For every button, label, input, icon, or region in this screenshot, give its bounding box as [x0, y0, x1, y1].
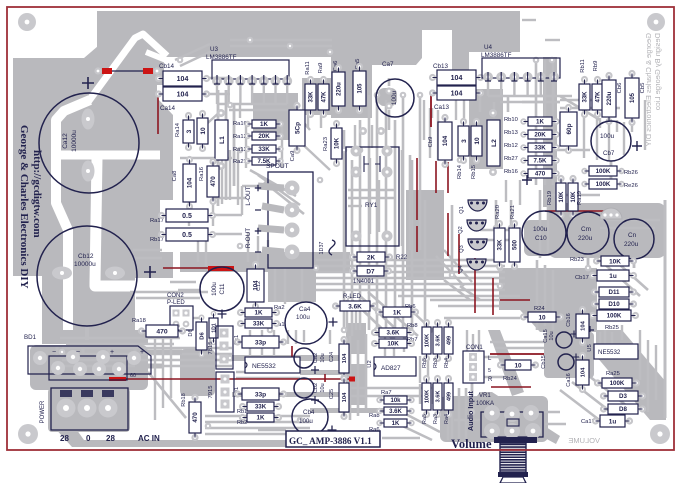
capacitor 104 box lower — [579, 352, 586, 359]
wire right mid verticals — [583, 111, 585, 158]
capacitor Cb7 — [591, 121, 631, 161]
wire diag bottom right — [390, 420, 432, 440]
via pads scattered — [247, 37, 254, 44]
red trace horizontal bottom-left — [163, 267, 210, 269]
wire big cap leads — [85, 326, 89, 340]
wire U3 region extras — [245, 124, 247, 168]
svg-text:Ra11: Ra11 — [305, 61, 311, 74]
transistor footprint TO-92 gray — [600, 208, 622, 219]
svg-text:1K: 1K — [260, 121, 268, 128]
svg-text:100u: 100u — [600, 133, 615, 140]
svg-text:P-LED: P-LED — [167, 300, 185, 306]
svg-text:Ca14: Ca14 — [160, 105, 176, 112]
svg-text:0: 0 — [86, 434, 91, 443]
copper pour bars near AD827 — [346, 323, 366, 354]
svg-text:5: 5 — [488, 368, 491, 374]
svg-text:47K: 47K — [596, 91, 602, 103]
svg-text:3.6K: 3.6K — [436, 335, 442, 347]
svg-text:Rb19: Rb19 — [547, 191, 553, 205]
wire bottom extras — [236, 371, 346, 373]
svg-text:33K: 33K — [583, 91, 589, 103]
speaker output pads — [285, 181, 300, 196]
svg-text:1u: 1u — [609, 273, 617, 280]
capacitor Cp8 — [565, 104, 572, 111]
svg-text:Rb12: Rb12 — [504, 143, 518, 149]
copper pour mid blob below output header — [268, 268, 316, 302]
svg-text:VR1: VR1 — [479, 393, 491, 399]
wire relay interior — [348, 189, 396, 191]
title box GC_AMP-3886 — [286, 431, 380, 447]
wire x432 to Cb9 — [431, 108, 433, 118]
svg-text:10: 10 — [538, 314, 546, 321]
capacitor Ca13 104 box — [429, 89, 436, 96]
svg-text:104: 104 — [342, 392, 348, 402]
svg-text:28: 28 — [60, 434, 69, 443]
svg-text:2K: 2K — [367, 254, 376, 261]
svg-text:L2: L2 — [491, 139, 498, 147]
svg-text:R22: R22 — [396, 255, 408, 261]
plus mark Cb12 — [144, 266, 156, 278]
wire bundle mid-right horizontals — [316, 259, 505, 262]
svg-text:100K: 100K — [425, 334, 431, 347]
wire bundle bottom-left horizontals — [62, 347, 232, 350]
op-amp U1 NE5532 — [245, 357, 300, 373]
svg-text:Cb9: Cb9 — [428, 137, 434, 148]
svg-text:1K: 1K — [257, 415, 265, 422]
wire top right corner stubs — [522, 19, 536, 21]
capacitor Cn — [614, 219, 654, 259]
svg-text:D8: D8 — [619, 406, 627, 413]
pour clearance white channel top-left — [88, 34, 167, 102]
capacitor Cb14 104 box — [155, 75, 162, 82]
power connector pads — [57, 399, 76, 418]
svg-text:George & Charles Electronics D: George & Charles Electronics DIY — [18, 125, 30, 289]
svg-text:BD1: BD1 — [24, 334, 37, 341]
svg-text:Ra20: Ra20 — [495, 205, 501, 219]
wire relay area — [354, 125, 356, 148]
svg-text:Cb12: Cb12 — [78, 253, 94, 260]
bridge rectifier BD1 outline — [28, 346, 151, 374]
svg-text:http://gcdigtw.com: http://gcdigtw.com — [31, 150, 43, 238]
svg-text:Rb18: Rb18 — [181, 393, 187, 406]
svg-text:10u: 10u — [549, 331, 555, 340]
svg-text:10: 10 — [474, 137, 481, 145]
svg-text:20K: 20K — [534, 132, 546, 139]
inductor L1 — [215, 120, 228, 160]
svg-text:33K: 33K — [255, 404, 267, 411]
wire Cb7 vertical — [599, 118, 601, 128]
volume pot shaft — [494, 437, 537, 443]
svg-text:R-LED: R-LED — [343, 294, 362, 300]
svg-text:10K: 10K — [387, 341, 399, 348]
svg-text:104: 104 — [451, 91, 463, 98]
svg-text:3: 3 — [186, 129, 193, 133]
wire U3 pin fanout — [216, 81, 218, 104]
wire U4 pin fanout — [487, 77, 489, 96]
op-amp U4 outline — [482, 58, 560, 78]
svg-text:10: 10 — [200, 127, 207, 135]
copper pour volume pot blob — [440, 396, 548, 442]
svg-text:Rb24: Rb24 — [503, 376, 518, 382]
svg-text:Ca9: Ca9 — [290, 151, 296, 162]
svg-text:C25: C25 — [329, 389, 335, 399]
svg-text:C12: C12 — [256, 281, 262, 291]
svg-text:George & Charles Electronics D: George & Charles Electronics DIY — [644, 33, 653, 146]
svg-text:3.6K: 3.6K — [348, 303, 362, 310]
wire U3 column extras — [221, 150, 223, 204]
wire x537-553 verticals bottom — [536, 260, 539, 330]
svg-text:104: 104 — [177, 76, 189, 83]
svg-text:C11: C11 — [219, 283, 226, 294]
regulator 7815 — [216, 326, 233, 369]
copper pour 7815 area blob — [180, 349, 215, 396]
svg-text:100u: 100u — [299, 418, 313, 425]
resistor Rb4 — [445, 319, 452, 326]
svg-text:Ra16: Ra16 — [199, 167, 205, 181]
svg-text:Volume: Volume — [451, 437, 492, 451]
svg-text:U4: U4 — [484, 44, 493, 51]
capacitor Cm — [567, 212, 609, 254]
copper pour block B top right — [452, 30, 520, 52]
wire bundle bottom-center horizontals — [205, 415, 310, 418]
capacitor C12 — [252, 261, 259, 268]
copper pour horizontal bands center-bottom — [232, 355, 346, 361]
svg-text:Ra5: Ra5 — [422, 414, 428, 424]
speaker output fat traces — [258, 186, 284, 188]
svg-text:28: 28 — [106, 434, 115, 443]
capacitor Ca14 104 box — [155, 90, 162, 97]
svg-text:3.6K: 3.6K — [389, 409, 402, 415]
svg-text:470: 470 — [535, 171, 546, 178]
svg-text:Q3: Q3 — [459, 245, 465, 252]
svg-text:Ra25: Ra25 — [606, 371, 620, 377]
svg-text:AC IN: AC IN — [138, 434, 160, 443]
svg-text:47K: 47K — [322, 91, 328, 103]
wire right area horizontals — [560, 99, 600, 101]
wire U3 to output bundle — [217, 90, 220, 206]
wire bottom mid verticals — [384, 330, 386, 356]
capacitor C11 — [200, 267, 244, 311]
diode D11 — [591, 288, 598, 295]
capacitor Cb4 — [292, 399, 328, 435]
wire BL region extras — [197, 236, 199, 262]
resistor Rb5 — [423, 319, 430, 326]
wire under U4 bundle — [479, 96, 482, 112]
red trace horizontal near volume — [491, 386, 531, 388]
capacitor Ca12 electrolytic — [39, 93, 139, 193]
svg-text:CON2: CON2 — [167, 293, 184, 299]
svg-text:1K: 1K — [536, 119, 544, 126]
copper pour main top-left mass — [13, 11, 331, 332]
svg-text:Ra7: Ra7 — [381, 390, 392, 396]
svg-text:Audio Input: Audio Input — [466, 390, 475, 431]
resistor Ra19 — [569, 175, 576, 182]
svg-text:C24: C24 — [329, 352, 335, 362]
copper pour behind Cm Cn caps — [548, 203, 666, 258]
capacitor Cb2 — [294, 378, 314, 398]
wire Ca7 leads — [388, 110, 391, 130]
svg-text:100K: 100K — [607, 313, 622, 320]
pour clearance white pocket 0.5 resistors — [160, 200, 174, 252]
inductor L2 — [487, 120, 500, 166]
svg-text:SPOUT: SPOUT — [266, 163, 289, 170]
capacitor Ca1 33p box — [234, 338, 241, 345]
bridge rectifier pads upper — [33, 351, 47, 365]
resistor Rb14 — [460, 118, 467, 125]
capacitor Cb12 electrolytic — [37, 226, 137, 326]
svg-text:U2: U2 — [367, 360, 373, 367]
mounting hole bottom-right — [650, 424, 670, 444]
resistor Ra5 — [423, 375, 430, 382]
svg-text:10K: 10K — [334, 137, 341, 149]
svg-text:L1: L1 — [219, 136, 226, 144]
copper pour Ca7 interior blob — [378, 88, 397, 106]
wire misc right caps — [610, 161, 613, 185]
red trace verticals center channel — [416, 158, 418, 220]
svg-text:100u: 100u — [296, 314, 310, 321]
wire diag right caps to holes — [600, 260, 640, 296]
wire CON1 feeds — [466, 330, 468, 351]
capacitor Cb13 104 box — [429, 74, 436, 81]
svg-text:Ra9: Ra9 — [318, 63, 324, 74]
svg-text:Rb16: Rb16 — [504, 169, 518, 175]
svg-text:Q1: Q1 — [459, 206, 465, 213]
wire bottom-left vertical bundle — [154, 336, 156, 420]
mounting hole top-right — [647, 13, 665, 31]
capacitor Ca2 — [294, 348, 314, 368]
svg-text:Cb4: Cb4 — [303, 409, 315, 416]
svg-text:10: 10 — [514, 362, 522, 369]
wire right edge vertical — [664, 200, 667, 418]
svg-text:NE5532: NE5532 — [598, 349, 621, 356]
red trace CON1 L line — [490, 353, 544, 355]
svg-text:33K: 33K — [253, 321, 265, 328]
pour clearance white channel to Cb14 — [146, 52, 176, 64]
svg-text:10000u: 10000u — [71, 130, 78, 152]
wire verticals mid-bottom — [249, 330, 251, 356]
svg-text:1D37: 1D37 — [319, 242, 325, 255]
svg-text:C10: C10 — [535, 235, 547, 242]
transistor Q4 — [467, 259, 486, 270]
wire bridge leads — [56, 346, 59, 356]
svg-text:Rb2: Rb2 — [237, 420, 247, 426]
diode D5 squiggle — [329, 240, 335, 255]
svg-text:D11: D11 — [608, 289, 620, 296]
svg-text:U5: U5 — [587, 344, 593, 351]
svg-text:Cn: Cn — [628, 232, 637, 239]
power connector outline — [51, 388, 128, 430]
copper pour power connector blob — [48, 388, 130, 432]
svg-text:100K: 100K — [596, 181, 611, 188]
svg-text:Rb8: Rb8 — [407, 323, 418, 329]
wire left bottom connects — [162, 325, 180, 327]
svg-text:Cb6: Cb6 — [617, 83, 623, 94]
wire bundle center channel verticals — [343, 130, 346, 330]
svg-text:Cb16: Cb16 — [566, 313, 572, 326]
svg-text:100u: 100u — [533, 226, 548, 233]
svg-text:Rb10: Rb10 — [504, 117, 518, 123]
svg-text:Rb3: Rb3 — [433, 358, 439, 368]
svg-text:3.6K: 3.6K — [386, 330, 400, 337]
svg-text:20K: 20K — [258, 133, 270, 140]
diode D8 — [600, 405, 607, 412]
wire audio input verticals — [458, 388, 461, 440]
svg-text:D6: D6 — [188, 329, 194, 336]
svg-text:33K: 33K — [534, 145, 546, 152]
svg-text:Ca13: Ca13 — [434, 104, 450, 111]
svg-text:10K: 10K — [609, 258, 621, 265]
svg-text:CON1: CON1 — [466, 345, 483, 351]
svg-text:0.5: 0.5 — [182, 213, 192, 220]
copper pour strip below block B — [452, 52, 469, 90]
svg-text:Ra4: Ra4 — [444, 414, 450, 424]
diode D3 — [600, 392, 607, 399]
capacitor Cb5 — [628, 70, 635, 77]
svg-text:33K: 33K — [498, 239, 504, 251]
svg-text:220u: 220u — [578, 235, 593, 242]
copper pour patch behind 33K 47K — [302, 78, 335, 115]
svg-text:D3: D3 — [619, 393, 627, 400]
copper pour block right of strip — [469, 89, 503, 169]
svg-text:Q2: Q2 — [458, 226, 464, 233]
svg-text:1N4001: 1N4001 — [353, 279, 375, 285]
svg-text:D6: D6 — [200, 332, 206, 340]
red trace horizontal near Rb23 — [545, 210, 609, 212]
wire BR bundle horizontals — [430, 299, 505, 302]
capacitor Cp5 — [293, 102, 300, 109]
wire center-right extras — [429, 108, 431, 158]
svg-text:Cb15: Cb15 — [541, 355, 547, 368]
svg-text:Cb2: Cb2 — [313, 383, 319, 393]
relay pads — [351, 146, 362, 157]
mounting hole top-left — [18, 13, 36, 31]
transistor Q1 — [468, 200, 487, 211]
svg-text:Ca12: Ca12 — [62, 133, 69, 149]
svg-text:Ra23: Ra23 — [323, 137, 329, 151]
capacitor C25 104 box — [340, 375, 347, 382]
resistor Re26 — [581, 181, 587, 187]
potentiometer outline — [481, 412, 543, 437]
red trace near Cb2 — [324, 374, 326, 382]
svg-text:Ca4: Ca4 — [299, 306, 311, 313]
svg-text:60p: 60p — [566, 123, 573, 134]
svg-text:Rb26: Rb26 — [624, 170, 638, 176]
svg-text:499: 499 — [447, 392, 453, 401]
svg-text:Rb9: Rb9 — [593, 61, 599, 72]
speaker output header outline — [268, 172, 313, 268]
wire right side drops from Cb5 Cb6 — [608, 120, 610, 160]
svg-text:~: ~ — [76, 349, 80, 356]
svg-text:Rb4: Rb4 — [444, 358, 450, 368]
svg-text:33K: 33K — [258, 146, 270, 153]
copper pour right of relay — [406, 190, 444, 280]
relay RY1 outline — [346, 147, 399, 246]
red trace top-left with pads — [94, 67, 101, 74]
svg-text:10000u: 10000u — [74, 261, 96, 268]
svg-text:+: + — [110, 349, 114, 356]
svg-text:RY1: RY1 — [365, 202, 378, 209]
svg-text:Cb14: Cb14 — [159, 63, 175, 70]
svg-text:0.5: 0.5 — [182, 232, 192, 239]
svg-text:470: 470 — [156, 328, 168, 335]
capacitor Ca4 — [285, 302, 327, 344]
resistor Rb25 — [589, 312, 596, 319]
resistor Rb24 — [497, 361, 504, 368]
wire volume area stubs — [447, 412, 449, 440]
svg-text:Ra8: Ra8 — [369, 413, 380, 419]
red trace verticals near Q transistors — [447, 162, 449, 193]
svg-text:7915: 7915 — [208, 386, 214, 399]
copper pour band below output area — [180, 252, 350, 272]
svg-text:Design By George Lico: Design By George Lico — [653, 33, 662, 110]
resistor Ra15 — [199, 110, 206, 117]
wire center column bottom verticals — [349, 336, 352, 420]
svg-text:104: 104 — [451, 75, 463, 82]
capacitor Cb1 33p box — [234, 390, 241, 397]
svg-text:105: 105 — [630, 92, 636, 103]
diode D7 — [349, 267, 356, 274]
relay top feed pads — [359, 127, 367, 135]
svg-text:Ca16: Ca16 — [566, 373, 572, 386]
svg-text:GC_ AMP-3886 V1.1: GC_ AMP-3886 V1.1 — [289, 436, 372, 446]
svg-text:Ca8: Ca8 — [172, 171, 178, 182]
svg-text:33p: 33p — [255, 391, 266, 398]
transistor Q3 — [468, 239, 487, 250]
wire BR center diagonals — [352, 300, 398, 344]
resistor Rb3 — [434, 319, 441, 326]
copper pour right column strip — [543, 57, 557, 207]
svg-text:Cm: Cm — [581, 226, 591, 233]
wire center mid extras — [413, 312, 432, 330]
copper pour bottom band — [53, 412, 350, 447]
pour clearance channel into Ca12 — [56, 100, 90, 334]
svg-text:NE5532: NE5532 — [252, 363, 276, 370]
svg-text:Ca7: Ca7 — [382, 61, 394, 68]
svg-text:Rb13: Rb13 — [504, 130, 518, 136]
svg-text:1K: 1K — [392, 421, 400, 427]
connector CON2 outline — [170, 306, 193, 330]
copper pour right-bottom mass — [499, 268, 597, 332]
resistor Rb1 — [239, 403, 246, 410]
plus marks near Ca15 Cb15 — [586, 326, 594, 334]
svg-text:−: − — [52, 349, 56, 356]
transistor Q2 — [467, 220, 486, 231]
svg-text:10u: 10u — [320, 353, 326, 362]
svg-text:220u: 220u — [337, 82, 343, 96]
svg-text:Ra14: Ra14 — [175, 122, 181, 137]
svg-text:104: 104 — [342, 353, 348, 363]
svg-text:3: 3 — [461, 139, 468, 143]
red trace vertical near Ca13 — [430, 93, 432, 127]
capacitor C24 104 box — [340, 336, 347, 343]
capacitor Cb6 — [605, 72, 612, 79]
svg-text:Cb13: Cb13 — [433, 63, 449, 70]
wire right bottom diagonals — [560, 390, 602, 422]
wire x540-560 verticals — [539, 190, 542, 258]
svg-text:104: 104 — [187, 177, 194, 188]
svg-text:100K: 100K — [610, 380, 625, 387]
red trace vertical near Ca14 — [157, 96, 159, 134]
copper pour top band — [98, 11, 520, 30]
svg-text:R: R — [488, 377, 493, 383]
svg-text:Rb15: Rb15 — [471, 165, 477, 179]
svg-text:7.5K: 7.5K — [533, 158, 547, 165]
svg-text:104: 104 — [442, 135, 449, 146]
svg-text:D7: D7 — [366, 268, 375, 275]
svg-text:Cb17: Cb17 — [575, 275, 589, 281]
wire left column top — [175, 44, 210, 60]
diode D10 — [591, 300, 598, 307]
